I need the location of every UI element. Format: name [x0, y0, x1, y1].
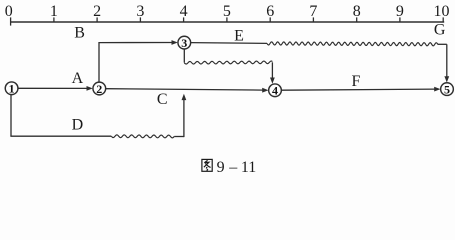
svg-text:2: 2	[93, 3, 101, 20]
svg-text:8: 8	[353, 3, 361, 20]
svg-text:E: E	[234, 28, 244, 45]
svg-text:–: –	[228, 159, 238, 176]
svg-text:11: 11	[241, 159, 256, 176]
svg-text:D: D	[72, 117, 84, 134]
svg-text:5: 5	[223, 3, 231, 20]
svg-text:3: 3	[136, 3, 144, 20]
svg-text:4: 4	[272, 84, 278, 98]
svg-text:A: A	[72, 70, 84, 87]
svg-text:10: 10	[434, 3, 450, 20]
svg-text:9: 9	[217, 159, 225, 176]
svg-text:1: 1	[9, 82, 15, 96]
svg-text:7: 7	[309, 3, 317, 20]
svg-text:F: F	[352, 73, 361, 90]
svg-text:3: 3	[181, 36, 187, 50]
svg-text:9: 9	[396, 3, 404, 20]
svg-text:1: 1	[50, 3, 58, 20]
svg-text:0: 0	[5, 3, 13, 20]
svg-text:5: 5	[444, 82, 450, 96]
svg-text:B: B	[74, 25, 85, 42]
svg-text:G: G	[434, 22, 446, 39]
svg-text:C: C	[157, 91, 168, 108]
svg-text:6: 6	[266, 3, 274, 20]
svg-text:4: 4	[180, 3, 188, 20]
svg-text:2: 2	[96, 82, 102, 96]
